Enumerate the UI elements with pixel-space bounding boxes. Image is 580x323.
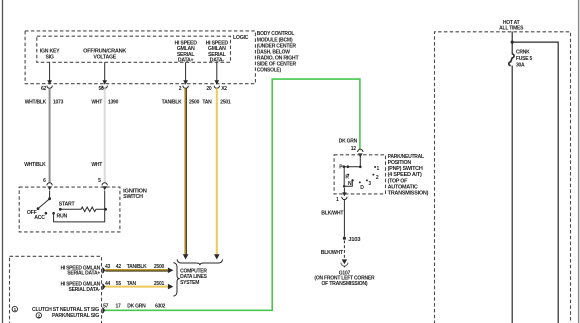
svg-text:2500: 2500	[154, 264, 165, 270]
svg-text:SIG: SIG	[46, 54, 54, 60]
svg-text:VOLTAGE: VOLTAGE	[93, 54, 116, 60]
label HI SPEED GMLAN SERIAL DATA- lower	[60, 282, 100, 293]
wire hot feed vertical	[511, 32, 513, 323]
svg-text:(PNP) SWITCH: (PNP) SWITCH	[388, 166, 423, 172]
svg-text:BLK/WHT: BLK/WHT	[321, 250, 343, 256]
wire DK GRN 6302	[105, 79, 360, 310]
svg-text:START: START	[59, 202, 76, 208]
connector pin 6 ignition switch	[43, 178, 52, 199]
wire RUN contact loop	[54, 209, 105, 222]
label LOGIC	[233, 35, 249, 41]
label COMPUTER DATA LINES SYSTEM	[180, 268, 207, 285]
svg-text:CONSOLE): CONSOLE)	[257, 68, 282, 74]
svg-text:62: 62	[41, 86, 47, 92]
wire BLK/WHT to splice	[321, 199, 344, 236]
svg-text:20: 20	[206, 86, 212, 92]
label BCM name block	[257, 31, 300, 73]
svg-text:DK GRN: DK GRN	[127, 304, 146, 310]
connector pin 56	[98, 86, 107, 93]
brace horizontal computer data lines	[177, 259, 223, 265]
svg-text:TAN: TAN	[127, 281, 137, 287]
svg-text:PARK/NEUTRAL SIG: PARK/NEUTRAL SIG	[52, 313, 99, 319]
wire WHT/BLK 1073 vertical	[24, 88, 63, 183]
label OFF	[27, 210, 37, 216]
svg-text:BODY CONTROL: BODY CONTROL	[257, 31, 295, 37]
svg-text:SERIAL DATA+: SERIAL DATA+	[67, 271, 100, 277]
svg-text:2500: 2500	[189, 99, 200, 105]
label IGNITION SWITCH	[123, 189, 147, 200]
svg-text:(4 SPEED A/T): (4 SPEED A/T)	[388, 172, 422, 178]
lower connector box dashed (clutch/park signals)	[10, 256, 102, 323]
PNP switch dashed box	[334, 155, 385, 194]
svg-text:WHT: WHT	[91, 99, 102, 105]
wire TAN 2501 vertical	[202, 88, 231, 259]
svg-text:CLUTCH ST NEUTRAL ST SIG: CLUTCH ST NEUTRAL ST SIG	[32, 307, 99, 313]
connector pins 44 55	[102, 281, 121, 290]
svg-text:BLK/WHT: BLK/WHT	[321, 211, 343, 217]
svg-text:TAN/BLK: TAN/BLK	[127, 264, 147, 270]
svg-text:2501: 2501	[220, 99, 231, 105]
svg-text:TAN: TAN	[202, 99, 212, 105]
BCM logic inner dashed box	[37, 36, 231, 62]
label OFF/RUN/CRANK VOLTAGE	[83, 49, 127, 61]
svg-text:57: 57	[103, 304, 109, 310]
BCM outer dashed box	[25, 31, 255, 84]
splice J103	[343, 237, 361, 243]
brace vertical computer data lines	[173, 263, 180, 297]
svg-text:AUTOMATIC: AUTOMATIC	[388, 184, 418, 190]
svg-text:17: 17	[116, 304, 122, 310]
resistor in ignition switch	[59, 207, 107, 212]
connector pins 43 42	[102, 264, 121, 273]
wire BCM internal pin 2 with arrow	[183, 62, 188, 84]
label HI SPEED GMLAN SERIAL DATA-	[206, 40, 229, 63]
label HI SPEED GMLAN SERIAL DATA+	[174, 40, 197, 63]
ignition switch dashed box	[19, 187, 120, 232]
label START	[59, 202, 76, 208]
page right border line	[578, 0, 580, 323]
connector pin 1 PNP bottom	[336, 188, 347, 203]
label DK GRN at PNP	[339, 139, 358, 145]
svg-text:12: 12	[351, 146, 357, 152]
junction node fuse feed	[511, 41, 514, 44]
connector pin 62	[41, 86, 52, 93]
PNP switch contacts and arm	[339, 165, 361, 188]
wire BCM internal pin 56 with arrow	[102, 62, 107, 84]
svg-text:RUN: RUN	[57, 213, 68, 219]
contact RUN	[52, 212, 67, 219]
fuse block dashed box	[435, 32, 571, 323]
svg-text:(UNDER CENTER: (UNDER CENTER	[257, 43, 296, 49]
svg-text:SYSTEM: SYSTEM	[180, 280, 199, 286]
wire WHT 1390 vertical	[91, 88, 118, 183]
svg-text:POSITION: POSITION	[388, 160, 412, 166]
svg-text:X2: X2	[221, 86, 227, 92]
label PNP switch name block	[388, 154, 429, 197]
svg-text:WHT: WHT	[91, 162, 102, 168]
svg-text:(TOP OF: (TOP OF	[388, 178, 409, 184]
svg-text:OF TRANSMISSION): OF TRANSMISSION)	[321, 281, 368, 287]
wire TAN 2501 horizontal	[106, 281, 174, 290]
svg-text:CRNK: CRNK	[516, 50, 530, 56]
svg-text:RADIO, ON RIGHT: RADIO, ON RIGHT	[257, 55, 300, 61]
note 1 circled CLUTCH ST NEUTRAL ST SIG	[12, 306, 99, 313]
PNP position labels	[345, 166, 379, 191]
fuse CRNK FUSE 5 30A	[509, 50, 533, 69]
svg-text:SWITCH: SWITCH	[123, 194, 143, 200]
svg-text:1073: 1073	[53, 99, 64, 105]
wire BCM internal pin 20 with arrow	[214, 62, 219, 84]
wire TAN/BLK 2500 horizontal	[106, 264, 174, 273]
ground G107	[314, 259, 375, 287]
connector pin 20 X2	[206, 86, 227, 93]
page left border line	[2, 0, 4, 323]
svg-text:TAN/BLK: TAN/BLK	[162, 99, 182, 105]
note 2 circled PARK/NEUTRAL SIG	[36, 313, 99, 319]
svg-text:6302: 6302	[155, 304, 166, 310]
inner solid box right of fuse	[512, 42, 558, 323]
svg-text:WHT/BLK: WHT/BLK	[25, 99, 47, 105]
connector pin 12 PNP switch	[351, 146, 363, 167]
ignition switch movable arm OFF	[37, 197, 51, 210]
connector pin 5 ignition switch	[98, 178, 107, 209]
svg-text:DK GRN: DK GRN	[339, 139, 358, 145]
contact ACC	[34, 212, 47, 221]
svg-text:SERIAL DATA-: SERIAL DATA-	[69, 287, 101, 293]
svg-text:WHT/BLK: WHT/BLK	[24, 162, 46, 168]
svg-text:J103: J103	[348, 237, 361, 243]
svg-text:2501: 2501	[154, 281, 165, 287]
wire BCM internal pin 62 with arrow	[47, 62, 52, 84]
svg-text:1390: 1390	[108, 99, 119, 105]
svg-text:FUSE 5: FUSE 5	[516, 56, 532, 62]
wire TAN/BLK 2500 vertical	[162, 88, 200, 259]
connector pins 57 17	[102, 304, 121, 313]
svg-text:ALL TIMES: ALL TIMES	[499, 25, 524, 31]
svg-text:LOGIC: LOGIC	[233, 35, 249, 41]
label IGN KEY SIG	[40, 49, 60, 61]
svg-text:56: 56	[98, 86, 104, 92]
wire BLK/WHT to ground dashed	[321, 241, 345, 259]
label HI SPEED GMLAN SERIAL DATA+ lower	[60, 265, 100, 276]
svg-text:PARK/NEUTRAL: PARK/NEUTRAL	[388, 154, 425, 160]
svg-text:TRANSMISSION): TRANSMISSION)	[388, 191, 429, 197]
svg-text:ACC: ACC	[34, 215, 45, 221]
label HOT AT ALL TIMES	[499, 20, 524, 31]
svg-text:30A: 30A	[516, 63, 525, 69]
connector pin 2	[179, 86, 189, 93]
